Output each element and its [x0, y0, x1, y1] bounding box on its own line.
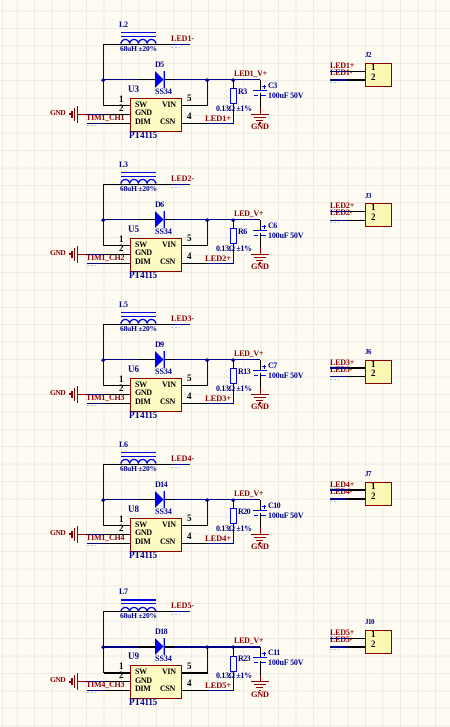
net label LED_V+: [234, 637, 263, 645]
pin number 1: [119, 235, 124, 244]
compile mark under LED2-: [171, 187, 180, 188]
pin 3 DIM of U3: [104, 123, 130, 124]
pin number 4: [187, 392, 192, 401]
compile mark under LED3+: [330, 366, 338, 367]
pin 2 GND of U9: [104, 681, 130, 682]
capacitor C11 pin 1: [260, 647, 261, 657]
compile mark under LED3-: [330, 379, 339, 380]
pin number 5: [187, 94, 192, 103]
diode D9 body: [155, 351, 166, 369]
net label LED2-: [330, 209, 352, 217]
pin 5 VIN of U8: [182, 525, 208, 526]
wire CSN net LED2+: [208, 263, 235, 264]
capacitor C7 pin 1: [260, 360, 261, 370]
connector J10 designator: [365, 619, 374, 626]
ground net name: [251, 690, 269, 699]
diode D5 designator: [155, 61, 164, 69]
capacitor C10 value 100uF 50V: [268, 512, 303, 520]
wire GND to pin 2: [87, 254, 105, 255]
pin number 2: [119, 524, 124, 533]
compile mark under LED1-: [330, 82, 339, 83]
diode D9 value SS34: [155, 368, 172, 376]
pin name VIN: [162, 668, 176, 676]
inductor L6 pin 1 and baseline: [103, 464, 172, 465]
pin 1 of J2: [348, 71, 365, 72]
diode D6 anode pin: [138, 219, 155, 220]
junction R23 branch: [231, 645, 235, 649]
junction SW node: [101, 358, 105, 362]
net label LED5+: [205, 681, 231, 690]
wire to GND symbol: [260, 675, 261, 682]
wire L7 to SW pin of U9: [103, 611, 104, 673]
wire to GND symbol: [260, 388, 261, 395]
pin number 2: [119, 244, 124, 253]
resistor R20 designator: [238, 508, 250, 516]
wire R13 to CSN: [233, 392, 234, 403]
resistor R23 body: [230, 656, 237, 672]
compile mark under LED4-: [171, 467, 180, 468]
pin number 1: [119, 375, 124, 384]
wire R3 to CSN: [233, 112, 234, 123]
resistor R6 pin 2: [233, 244, 234, 252]
wire D18 cathode to LED_V+ node: [174, 646, 260, 647]
capacitor C3 pin 1: [260, 80, 261, 90]
capacitor C7 plus sign: [262, 366, 266, 367]
inductor L7 core bars: [121, 599, 156, 600]
wire SW node to D14 anode: [104, 499, 139, 500]
inductor L6 value 68uH ±20%: [120, 465, 157, 473]
pin name SW: [135, 521, 147, 529]
capacitor C10 plus sign: [262, 506, 266, 507]
IC U3 PT4115 body: [130, 98, 183, 133]
pin 2 of J2: [348, 79, 365, 80]
capacitor C11 value 100uF 50V: [268, 659, 303, 667]
pin 3 DIM of U9: [104, 690, 130, 691]
pin number 2: [371, 73, 376, 82]
wire net LED4+ to J7: [330, 489, 349, 490]
resistor R20 value 0.13Ω ±1%: [216, 525, 252, 533]
junction VIN branch: [205, 358, 209, 362]
wire down to VIN pin of U5: [207, 220, 208, 246]
wire net LED2+ to J3: [330, 211, 349, 212]
pin 2 of J7: [348, 498, 365, 499]
IC U8 PT4115 body: [130, 518, 183, 553]
wire net LED2- to J3: [330, 220, 349, 221]
pin 2 GND of U3: [104, 114, 130, 115]
capacitor C7 plates: [253, 370, 267, 371]
inductor L5 value 68uH ±20%: [120, 325, 157, 333]
junction R6 branch: [231, 218, 235, 222]
capacitor C7 pin 2: [260, 373, 261, 388]
wire CSN net LED4+: [208, 543, 235, 544]
pin name GND: [135, 249, 152, 257]
power port GND: [50, 389, 65, 397]
pin name DIM: [135, 538, 150, 546]
net label TIM1_CH2: [86, 254, 124, 262]
pin name GND: [135, 389, 152, 397]
ground symbol under capacitor: [251, 534, 269, 535]
pin number 1: [371, 360, 376, 369]
net label LED3+: [330, 359, 354, 367]
pin 4 CSN of U9: [182, 690, 208, 691]
junction SW node: [101, 645, 105, 649]
junction VIN branch: [205, 78, 209, 82]
net label TIM1_CH4: [86, 534, 124, 542]
inductor L3 core bars: [121, 172, 156, 173]
diode D9 anode pin: [138, 359, 155, 360]
inductor L6 core bars: [121, 452, 156, 453]
connector J2 body: [365, 63, 392, 88]
capacitor C3 designator: [268, 82, 277, 90]
resistor R13 designator: [238, 368, 250, 376]
inductor L3 pin 1 and baseline: [103, 184, 172, 185]
compile mark under TIM1_CH1: [87, 125, 96, 126]
pin 2 GND of U6: [104, 394, 130, 395]
inductor L7 designator: [119, 588, 128, 596]
wire CSN net LED5+: [208, 690, 235, 691]
pin name VIN: [162, 521, 176, 529]
pin 2 of J3: [348, 220, 365, 221]
wire L3 to SW pin of U5: [103, 184, 104, 246]
inductor L6 coil: [120, 457, 157, 465]
connector J6 designator: [365, 349, 371, 356]
resistor R6 value 0.13Ω ±1%: [216, 245, 252, 253]
power port GND stem: [78, 254, 87, 255]
pin 4 CSN of U3: [182, 123, 208, 124]
pin number 2: [371, 369, 376, 378]
capacitor C10 pin 1: [260, 500, 261, 510]
capacitor C6 pin 2: [260, 233, 261, 248]
pin name CSN: [160, 118, 175, 126]
power port GND stem: [78, 534, 87, 535]
pin name CSN: [160, 538, 175, 546]
capacitor C6 value 100uF 50V: [268, 232, 303, 240]
net label LED_V+: [234, 350, 263, 358]
wire D9 cathode to LED_V+ node: [174, 359, 260, 360]
resistor R13 body: [230, 368, 237, 384]
wire SW node to D6 anode: [104, 219, 139, 220]
net label LED2+: [330, 202, 354, 210]
wire down to VIN pin of U6: [207, 360, 208, 386]
connector J7 body: [365, 482, 392, 507]
inductor L3 designator: [119, 161, 128, 169]
pin name SW: [135, 101, 147, 109]
wire to GND symbol: [260, 108, 261, 115]
wire net LED4- to J7: [330, 498, 349, 499]
IC U6 designator: [128, 365, 139, 374]
diode D5 cathode pin: [165, 79, 174, 80]
IC U8 designator: [128, 505, 139, 514]
wire down to VIN pin of U3: [207, 80, 208, 106]
pin 4 CSN of U6: [182, 403, 208, 404]
compile mark under TIM1_CH4: [87, 545, 96, 546]
wire GND to pin 2: [87, 534, 105, 535]
pin number 2: [119, 384, 124, 393]
diode D6 cathode pin: [165, 219, 174, 220]
pin 1 SW of U6: [104, 385, 130, 386]
wire D14 cathode to LED_V+ node: [174, 499, 260, 500]
wire down to VIN pin of U8: [207, 500, 208, 526]
pin 3 DIM of U8: [104, 543, 130, 544]
resistor R3 pin 1: [233, 80, 234, 89]
wire down to VIN pin of U9: [207, 647, 208, 673]
compile mark under TIM1_CH2: [87, 265, 96, 266]
diode D6 body: [155, 211, 166, 229]
capacitor C11 plates: [253, 657, 267, 658]
resistor R20 pin 2: [233, 524, 234, 532]
junction SW node: [101, 218, 105, 222]
pin number 1: [119, 95, 124, 104]
pin 5 VIN of U5: [182, 245, 208, 246]
wire stub net TIM4_CH3: [87, 690, 105, 691]
power port GND stem: [78, 681, 87, 682]
wire GND to pin 2: [87, 114, 105, 115]
inductor L7 value 68uH ±20%: [120, 612, 157, 620]
inductor L5 pin 1 and baseline: [103, 324, 172, 325]
junction R3 branch: [231, 78, 235, 82]
pin number 1: [371, 482, 376, 491]
resistor R23 pin 1: [233, 647, 234, 656]
net label LED_V+: [234, 490, 263, 498]
pin name DIM: [135, 685, 150, 693]
wire stub net LED4-: [172, 464, 190, 465]
pin name CSN: [160, 398, 175, 406]
pin 4 CSN of U5: [182, 263, 208, 264]
resistor R6 pin 1: [233, 220, 234, 229]
diode D18 cathode pin: [165, 646, 174, 647]
compile mark under LED5+: [330, 636, 338, 637]
pin number 2: [371, 213, 376, 222]
wire R6 to CSN: [233, 252, 234, 263]
diode D14 value SS34: [155, 508, 172, 516]
net label LED1-: [171, 35, 194, 43]
IC U5 designator: [128, 225, 139, 234]
pin 3 DIM of U6: [104, 403, 130, 404]
wire SW node to D18 anode: [104, 646, 139, 647]
pin 2 of J10: [348, 646, 365, 647]
capacitor C7 value 100uF 50V: [268, 372, 303, 380]
pin number 1: [119, 515, 124, 524]
capacitor C3 plus sign: [262, 86, 266, 87]
connector J10 body: [365, 630, 392, 655]
wire R23 to CSN: [233, 679, 234, 690]
compile mark under LED1-: [171, 47, 180, 48]
resistor R13 pin 2: [233, 384, 234, 392]
IC U5 value PT4115: [129, 271, 157, 280]
resistor R3 pin 2: [233, 104, 234, 112]
pin 1 SW of U8: [104, 525, 130, 526]
compile mark under LED2+: [330, 209, 338, 210]
wire L5 to SW pin of U6: [103, 324, 104, 386]
wire L6 to SW pin of U8: [103, 464, 104, 526]
junction VIN branch: [205, 218, 209, 222]
ground net name: [251, 122, 269, 131]
wire SW node to D5 anode: [104, 79, 139, 80]
IC U6 value PT4115: [129, 411, 157, 420]
IC U9 PT4115 body: [130, 665, 183, 700]
net label LED5+: [330, 629, 354, 637]
pin 1 SW of U3: [104, 105, 130, 106]
pin name VIN: [162, 381, 176, 389]
net label LED1+: [330, 62, 354, 70]
pin number 2: [371, 640, 376, 649]
connector J6 body: [365, 360, 392, 385]
IC U3 designator: [128, 85, 139, 94]
diode D6 value SS34: [155, 228, 172, 236]
wire stub net TIM1_CH2: [87, 263, 105, 264]
pin name DIM: [135, 258, 150, 266]
ground net name: [251, 262, 269, 271]
capacitor C7 designator: [268, 362, 277, 370]
inductor L2 value 68uH ±20%: [120, 45, 157, 53]
capacitor C3 pin 2: [260, 93, 261, 108]
wire stub net LED3-: [172, 324, 190, 325]
diode D18 anode pin: [138, 646, 155, 647]
pin 2 of J6: [348, 376, 365, 377]
pin name CSN: [160, 258, 175, 266]
pin number 4: [187, 252, 192, 261]
pin number 2: [119, 104, 124, 113]
diode D6 designator: [155, 201, 164, 209]
wire CSN net LED3+: [208, 403, 235, 404]
power port GND stem: [78, 114, 87, 115]
resistor R6 designator: [238, 228, 247, 236]
net label LED5-: [171, 602, 194, 610]
IC U3 value PT4115: [129, 131, 157, 140]
wire stub net TIM1_CH1: [87, 123, 105, 124]
pin 4 CSN of U8: [182, 543, 208, 544]
diode D18 designator: [155, 628, 167, 636]
compile mark under LED1+: [330, 69, 338, 70]
wire stub net LED2-: [172, 184, 190, 185]
net label LED1_V+: [234, 70, 267, 78]
net label LED2-: [171, 175, 194, 183]
inductor L5 coil: [120, 317, 157, 325]
pin 1 of J3: [348, 211, 365, 212]
capacitor C6 plus sign: [262, 226, 266, 227]
junction VIN branch: [205, 498, 209, 502]
IC U6 PT4115 body: [130, 378, 183, 413]
resistor R23 value 0.13Ω ±1%: [216, 672, 252, 680]
IC U8 value PT4115: [129, 551, 157, 560]
wire net LED1- to J2: [330, 79, 349, 80]
net label LED2+: [205, 254, 231, 263]
wire net LED1+ to J2: [330, 71, 349, 72]
capacitor C6 pin 1: [260, 220, 261, 230]
diode D9 cathode pin: [165, 359, 174, 360]
inductor L5 core bars: [121, 312, 156, 313]
inductor L3 coil: [120, 177, 157, 185]
ground symbol under capacitor: [251, 681, 269, 682]
compile mark under LED4+: [330, 488, 338, 489]
ground symbol under capacitor: [251, 114, 269, 115]
pin 1 of J10: [348, 638, 365, 639]
pin 2 GND of U5: [104, 254, 130, 255]
wire stub net LED5-: [172, 611, 190, 612]
compile mark under LED2-: [330, 222, 339, 223]
wire net LED5+ to J10: [330, 638, 349, 639]
wire net LED3+ to J6: [330, 367, 349, 368]
pin 1 SW of U9: [104, 672, 130, 673]
net label LED1+: [205, 114, 231, 123]
wire L2 to SW pin of U3: [103, 44, 104, 106]
pin number 1: [371, 630, 376, 639]
pin 1 of J6: [348, 367, 365, 368]
pin 2 GND of U8: [104, 534, 130, 535]
compile mark under TIM1_CH3: [87, 405, 96, 406]
connector J7 designator: [365, 471, 371, 478]
connector J3 designator: [365, 193, 371, 200]
resistor R3 body: [230, 88, 237, 104]
diode D5 anode pin: [138, 79, 155, 80]
pin 3 DIM of U5: [104, 263, 130, 264]
net label TIM4_CH3: [86, 681, 124, 689]
net label TIM1_CH3: [86, 394, 124, 402]
pin name VIN: [162, 101, 176, 109]
pin number 4: [187, 679, 192, 688]
resistor R23 designator: [238, 655, 250, 663]
diode D18 body: [155, 638, 166, 656]
junction SW node: [101, 78, 105, 82]
diode D5 value SS34: [155, 88, 172, 96]
ground net name: [251, 402, 269, 411]
net label LED4-: [171, 455, 194, 463]
capacitor C11 pin 2: [260, 661, 261, 676]
inductor L7 coil: [120, 605, 157, 613]
IC U9 designator: [128, 652, 139, 661]
resistor R20 pin 1: [233, 500, 234, 509]
inductor L3 value 68uH ±20%: [120, 185, 157, 193]
ground symbol under capacitor: [251, 394, 269, 395]
capacitor C10 pin 2: [260, 513, 261, 528]
pin number 1: [371, 63, 376, 72]
inductor L5 designator: [119, 301, 128, 309]
wire to GND symbol: [260, 528, 261, 535]
IC U9 value PT4115: [129, 698, 157, 707]
net label LED5-: [330, 636, 352, 644]
inductor L6 designator: [119, 441, 128, 449]
pin number 5: [187, 514, 192, 523]
resistor R6 body: [230, 228, 237, 244]
pin number 1: [371, 203, 376, 212]
pin 5 VIN of U6: [182, 385, 208, 386]
pin number 4: [187, 112, 192, 121]
resistor R3 value 0.13Ω ±1%: [216, 105, 252, 113]
net label LED3-: [330, 366, 352, 374]
inductor L2 coil: [120, 37, 157, 45]
inductor L2 pin 1 and baseline: [103, 44, 172, 45]
power port GND: [50, 529, 65, 537]
power port GND stem: [78, 394, 87, 395]
junction R20 branch: [231, 498, 235, 502]
wire to GND symbol: [260, 248, 261, 255]
pin number 5: [187, 662, 192, 671]
compile mark under LED5-: [330, 649, 339, 650]
pin name GND: [135, 677, 152, 685]
capacitor C3 value 100uF 50V: [268, 92, 303, 100]
resistor R20 body: [230, 508, 237, 524]
wire R20 to CSN: [233, 532, 234, 543]
wire CSN net LED1+: [208, 123, 235, 124]
pin name DIM: [135, 118, 150, 126]
pin 1 SW of U5: [104, 245, 130, 246]
wire GND to pin 2: [87, 681, 105, 682]
diode D14 anode pin: [138, 499, 155, 500]
resistor R3 designator: [238, 88, 247, 96]
resistor R23 pin 2: [233, 672, 234, 680]
pin name SW: [135, 381, 147, 389]
wire GND to pin 2: [87, 394, 105, 395]
